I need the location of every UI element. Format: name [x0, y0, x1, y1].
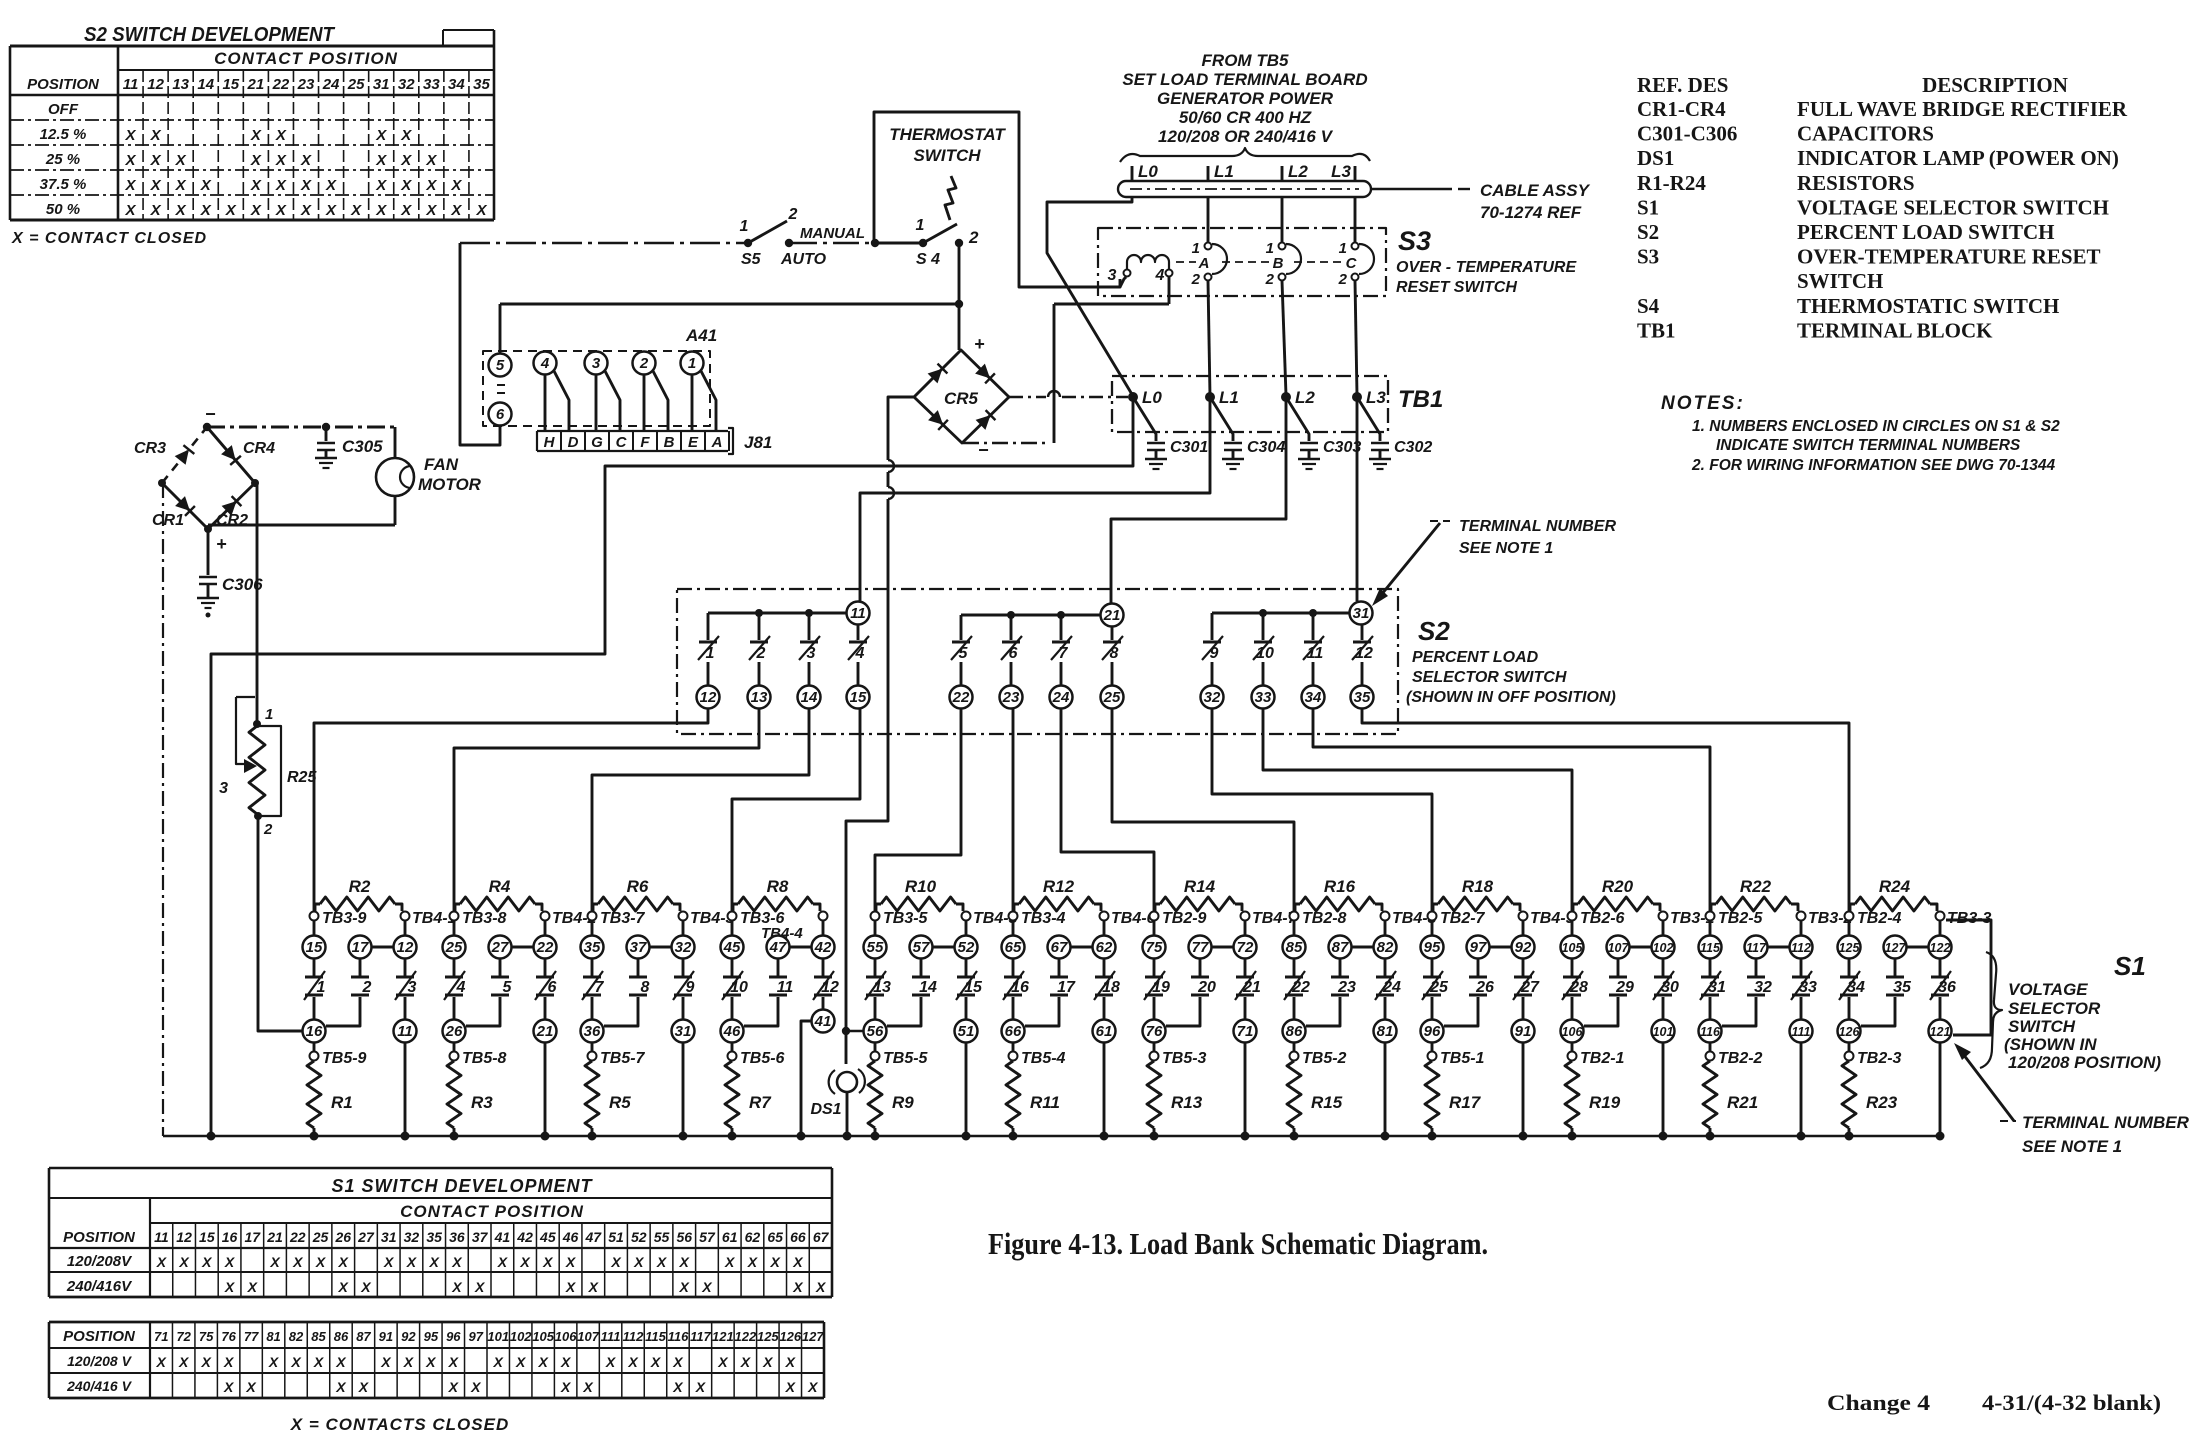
- terminal TB5-9: [310, 1042, 367, 1067]
- svg-text:X: X: [223, 1379, 235, 1395]
- svg-text:3: 3: [219, 780, 228, 797]
- svg-text:X: X: [400, 177, 412, 194]
- svg-text:RESISTORS: RESISTORS: [1797, 171, 1915, 195]
- svg-text:R14: R14: [1184, 877, 1216, 896]
- resistor R15: [1287, 1061, 1343, 1136]
- capacitor C302: [1357, 397, 1432, 469]
- svg-text:23: 23: [297, 76, 315, 93]
- svg-text:X: X: [792, 1279, 804, 1295]
- svg-text:51: 51: [608, 1229, 624, 1245]
- svg-text:X: X: [150, 177, 162, 194]
- svg-text:Figure 4-13. Load Bank Sche: Figure 4-13. Load Bank Schematic Diagram…: [988, 1226, 1488, 1261]
- svg-text:122: 122: [735, 1329, 757, 1344]
- S1 terminal 25: [443, 920, 466, 959]
- S2 contact 9: [1202, 613, 1223, 686]
- svg-text:17: 17: [352, 939, 369, 956]
- svg-text:L1: L1: [1214, 162, 1234, 181]
- switch S2 box: [677, 589, 1398, 734]
- svg-text:76: 76: [1146, 1023, 1163, 1040]
- notes text block: [1661, 393, 2060, 474]
- terminal TB4-8: [1381, 910, 1437, 927]
- svg-text:X: X: [403, 1354, 415, 1370]
- svg-text:72: 72: [176, 1329, 191, 1344]
- S1 terminal 107: [1607, 936, 1653, 959]
- svg-text:X: X: [515, 1354, 527, 1370]
- svg-text:50 %: 50 %: [46, 201, 80, 218]
- svg-text:CR4: CR4: [243, 440, 275, 457]
- svg-text:TERMINAL BLOCK: TERMINAL BLOCK: [1797, 318, 1993, 342]
- svg-text:TB5-3: TB5-3: [1162, 1050, 1207, 1067]
- wire thermostat to S3 coil pin3: [1120, 277, 1126, 287]
- svg-text:X: X: [400, 152, 412, 169]
- svg-text:(SHOWN IN OFF POSITION): (SHOWN IN OFF POSITION): [1406, 689, 1616, 706]
- svg-text:25: 25: [1103, 689, 1121, 706]
- rectifier CR1-CR4: [134, 404, 275, 554]
- svg-text:6: 6: [1009, 645, 1018, 662]
- svg-text:20: 20: [1197, 979, 1216, 996]
- svg-text:47: 47: [585, 1229, 603, 1245]
- svg-text:R3: R3: [471, 1093, 493, 1112]
- svg-text:X: X: [125, 152, 137, 169]
- svg-text:THERMOSTATIC SWITCH: THERMOSTATIC SWITCH: [1797, 294, 2059, 318]
- svg-text:97: 97: [469, 1329, 484, 1344]
- wire bridge to R25: [255, 483, 257, 724]
- svg-text:X: X: [375, 177, 387, 194]
- svg-text:127: 127: [802, 1329, 824, 1344]
- S1 terminal 51: [955, 1020, 978, 1043]
- svg-text:Change 4: Change 4: [1827, 1390, 1930, 1415]
- S1 contact 9: [673, 958, 695, 1020]
- svg-text:VOLTAGE SELECTOR SWITCH: VOLTAGE SELECTOR SWITCH: [1797, 195, 2109, 219]
- svg-text:S5: S5: [741, 251, 762, 268]
- svg-text:X: X: [150, 152, 162, 169]
- S1 contact 15: [956, 958, 983, 1020]
- svg-text:REF. DES: REF. DES: [1637, 73, 1728, 97]
- svg-text:86: 86: [1286, 1023, 1303, 1040]
- S2 contact 7: [1051, 615, 1072, 686]
- wire L3 cable to TB1: [1355, 197, 1357, 395]
- S1 terminal 82: [1374, 920, 1397, 959]
- wire S2 output 708 to group 314: [314, 708, 708, 911]
- terminal TB2-4: [1845, 910, 1902, 927]
- svg-text:57: 57: [699, 1229, 716, 1245]
- resistor R5: [585, 1061, 631, 1136]
- svg-text:126: 126: [1839, 1025, 1861, 1039]
- svg-text:12: 12: [700, 689, 717, 706]
- svg-text:3: 3: [807, 645, 816, 662]
- svg-text:TB2-7: TB2-7: [1440, 910, 1486, 927]
- svg-text:70-1274 REF: 70-1274 REF: [1480, 203, 1582, 222]
- svg-text:SWITCH: SWITCH: [1797, 269, 1883, 293]
- node TB1 L2: [1281, 388, 1315, 407]
- S1 contact 36: [1930, 958, 1956, 1020]
- S2 contact 1: [698, 613, 719, 686]
- svg-text:41: 41: [814, 1013, 832, 1030]
- S1 terminal 47: [767, 936, 813, 959]
- A41 pin 3: [585, 352, 608, 375]
- S1 terminal 56: [864, 1020, 887, 1043]
- node L3 label: [1331, 162, 1355, 181]
- S1 terminal 41: [812, 1010, 835, 1033]
- svg-text:56: 56: [676, 1229, 692, 1245]
- terminal TB4-1: [401, 910, 457, 927]
- capacitor C303: [1286, 397, 1361, 469]
- svg-text:10: 10: [1256, 645, 1274, 662]
- svg-text:R1: R1: [331, 1093, 353, 1112]
- S1 terminal 116: [1699, 1020, 1722, 1043]
- svg-text:X: X: [605, 1354, 617, 1370]
- svg-text:1: 1: [706, 645, 715, 662]
- connector A41 box: [483, 326, 717, 426]
- svg-text:106: 106: [555, 1329, 577, 1344]
- svg-text:X: X: [701, 1279, 713, 1295]
- svg-text:15: 15: [850, 689, 867, 706]
- svg-text:34: 34: [448, 76, 465, 93]
- svg-text:E: E: [688, 434, 699, 451]
- svg-text:X: X: [792, 1254, 804, 1270]
- svg-text:45: 45: [723, 939, 741, 956]
- S1 contact 22: [1284, 958, 1310, 1020]
- svg-text:62: 62: [1096, 939, 1113, 956]
- svg-text:62: 62: [745, 1229, 761, 1245]
- svg-text:X: X: [425, 152, 437, 169]
- svg-text:11: 11: [1307, 645, 1324, 662]
- terminal TB5-4: [1009, 1042, 1066, 1067]
- from TB5 source text: [1120, 51, 1370, 162]
- svg-text:X: X: [627, 1354, 639, 1370]
- capacitor C301: [1133, 397, 1208, 469]
- svg-text:R6: R6: [627, 877, 649, 896]
- svg-text:15: 15: [199, 1229, 215, 1245]
- S1 terminal 31: [672, 1020, 695, 1043]
- svg-text:X: X: [672, 1354, 684, 1370]
- wire L2 cable to TB1: [1282, 197, 1286, 395]
- svg-text:TB2-5: TB2-5: [1718, 910, 1764, 927]
- capacitor C305: [315, 427, 383, 468]
- svg-text:R4: R4: [489, 877, 511, 896]
- svg-text:X: X: [125, 177, 137, 194]
- svg-text:POSITION: POSITION: [63, 1229, 136, 1246]
- svg-text:6: 6: [496, 406, 505, 423]
- S1 contact 23: [1306, 958, 1356, 1026]
- svg-text:31: 31: [1353, 605, 1370, 622]
- svg-text:97: 97: [1470, 939, 1487, 956]
- S1 terminal 11: [394, 1020, 417, 1043]
- svg-text:C301: C301: [1170, 439, 1208, 456]
- svg-text:X: X: [225, 202, 237, 219]
- wire terminal 51 to bus: [965, 1042, 968, 1136]
- svg-text:77: 77: [1192, 939, 1209, 956]
- node TB1 L1: [1205, 388, 1239, 407]
- svg-text:X: X: [250, 127, 262, 144]
- svg-text:3: 3: [592, 355, 601, 372]
- thermostat switch box: [874, 112, 1120, 287]
- A41 pin 5: [489, 354, 512, 377]
- svg-text:28: 28: [1569, 979, 1588, 996]
- svg-text:12.5 %: 12.5 %: [40, 126, 87, 143]
- svg-text:X: X: [450, 177, 462, 194]
- svg-text:X: X: [300, 177, 312, 194]
- svg-text:POSITION: POSITION: [27, 76, 100, 93]
- svg-text:81: 81: [1377, 1023, 1394, 1040]
- resistor R9: [868, 1061, 914, 1136]
- svg-text:X = CONTACTS CLOSED: X = CONTACTS CLOSED: [290, 1415, 509, 1434]
- svg-text:26: 26: [1475, 979, 1494, 996]
- svg-text:95: 95: [424, 1329, 439, 1344]
- terminal TB4-2: [541, 910, 597, 927]
- wire left dc rail (dash-dot): [162, 483, 164, 1136]
- svg-text:X: X: [247, 1279, 259, 1295]
- svg-text:105: 105: [532, 1329, 554, 1344]
- callout terminal number (top): [1372, 518, 1616, 606]
- resistor R13: [1147, 1061, 1203, 1136]
- S2 terminal 21: [1101, 604, 1124, 627]
- svg-text:X: X: [245, 1379, 257, 1395]
- svg-text:A41: A41: [685, 326, 717, 345]
- S2 terminal 24: [1050, 686, 1073, 709]
- node TB1 L0: [1128, 388, 1162, 407]
- S1 terminal 126: [1838, 1020, 1861, 1043]
- terminal TB4-9: [1519, 910, 1575, 927]
- S2 terminal 22: [950, 686, 973, 709]
- svg-text:S1: S1: [2114, 951, 2146, 981]
- svg-text:16: 16: [306, 1023, 323, 1040]
- wire bridge minus rail: [203, 423, 395, 431]
- svg-text:31: 31: [675, 1023, 692, 1040]
- svg-text:34: 34: [1305, 689, 1322, 706]
- svg-text:TB3-7: TB3-7: [600, 910, 646, 927]
- S2 contact 12: [1352, 624, 1373, 686]
- table S1 switch development upper: [49, 1168, 832, 1297]
- S2 contact 5: [951, 615, 972, 686]
- resistor R14: [1155, 877, 1242, 911]
- svg-text:S2: S2: [1637, 220, 1659, 244]
- svg-text:X: X: [588, 1279, 600, 1295]
- S2 terminal 32: [1201, 686, 1224, 709]
- resistor R6: [593, 877, 680, 911]
- svg-text:X: X: [762, 1354, 774, 1370]
- S2 bus wire 31: [1212, 609, 1350, 617]
- svg-text:102: 102: [510, 1329, 532, 1344]
- svg-text:R23: R23: [1866, 1093, 1898, 1112]
- svg-text:33: 33: [1799, 979, 1817, 996]
- svg-text:2: 2: [1265, 271, 1275, 288]
- A41 pin 2: [633, 352, 656, 375]
- svg-text:87: 87: [1332, 939, 1349, 956]
- svg-text:X: X: [338, 1279, 350, 1295]
- S2 terminal 14: [798, 686, 821, 709]
- svg-text:36: 36: [584, 1023, 601, 1040]
- A41 pin 6: [489, 385, 512, 426]
- S1 contact 33: [1791, 958, 1817, 1020]
- S1 contact 11: [744, 958, 793, 1026]
- S1 terminal 127: [1884, 936, 1930, 959]
- S1 contact 21: [1235, 958, 1261, 1020]
- cable assembly: [1118, 181, 1591, 222]
- S2 terminal 33: [1252, 686, 1275, 709]
- svg-text:X: X: [740, 1354, 752, 1370]
- svg-text:31: 31: [381, 1229, 397, 1245]
- svg-text:66: 66: [790, 1229, 806, 1245]
- terminal TB2-7: [1428, 910, 1486, 927]
- svg-text:2. FOR WIRING INFORMATION SEE: 2. FOR WIRING INFORMATION SEE DWG 70-134…: [1691, 457, 2056, 474]
- svg-text:2: 2: [756, 645, 766, 662]
- S1 terminal 62: [1093, 920, 1116, 959]
- S1 terminal 32: [672, 920, 695, 959]
- S1 contact 4: [444, 958, 466, 1020]
- svg-text:41: 41: [494, 1229, 511, 1245]
- svg-text:55: 55: [867, 939, 884, 956]
- svg-text:R22: R22: [1740, 877, 1772, 896]
- S3 pole C: [1338, 240, 1374, 288]
- svg-text:33: 33: [423, 76, 440, 93]
- svg-text:X: X: [175, 177, 187, 194]
- svg-text:X: X: [292, 1254, 304, 1270]
- svg-text:X: X: [497, 1254, 509, 1270]
- wire terminal 101 to bus: [1662, 1042, 1665, 1136]
- svg-text:R7: R7: [749, 1093, 772, 1112]
- svg-text:32: 32: [404, 1229, 420, 1245]
- S1 terminal 91: [1512, 1020, 1535, 1043]
- svg-text:X: X: [200, 177, 212, 194]
- svg-text:S2 SWITCH DEVELOPMENT: S2 SWITCH DEVELOPMENT: [84, 24, 336, 46]
- svg-text:111: 111: [1791, 1025, 1810, 1039]
- S1 contact 17: [1025, 958, 1076, 1026]
- svg-text:72: 72: [1237, 939, 1254, 956]
- svg-text:TB5-6: TB5-6: [740, 1050, 785, 1067]
- terminal TB4-3: [679, 910, 735, 927]
- svg-text:B: B: [664, 434, 675, 451]
- wire CR5 right to TB1 L0 (dash-dot with hop): [1009, 391, 1128, 397]
- svg-text:TERMINAL NUMBER: TERMINAL NUMBER: [2022, 1113, 2190, 1132]
- svg-text:X: X: [724, 1254, 736, 1270]
- svg-text:X: X: [815, 1279, 827, 1295]
- svg-text:L3: L3: [1366, 388, 1386, 407]
- svg-text:X: X: [785, 1379, 797, 1395]
- svg-text:85: 85: [311, 1329, 326, 1344]
- wire S2 output 1313 to group 1710: [1313, 708, 1710, 911]
- svg-text:DS1: DS1: [1637, 146, 1674, 170]
- S1 terminal 81: [1374, 1020, 1397, 1043]
- wire L0 neutral to left bus: [211, 397, 1133, 1136]
- S1 contact 10: [722, 958, 748, 1020]
- svg-text:12: 12: [176, 1229, 192, 1245]
- terminal TB4-7: [1241, 910, 1298, 927]
- terminal block TB1 box: [1112, 376, 1443, 432]
- svg-text:125: 125: [1839, 941, 1861, 955]
- svg-text:46: 46: [723, 1023, 741, 1040]
- wire S3 coil pin4 to CR5 minus: [963, 277, 1169, 443]
- svg-text:16: 16: [1011, 979, 1029, 996]
- svg-text:61: 61: [722, 1229, 738, 1245]
- svg-text:X: X: [150, 127, 162, 144]
- svg-text:81: 81: [266, 1329, 280, 1344]
- svg-text:X: X: [250, 177, 262, 194]
- S1 contact 13: [865, 958, 891, 1020]
- S1 contact 34: [1839, 958, 1865, 1020]
- svg-text:INDICATE SWITCH TERMINAL NUMBE: INDICATE SWITCH TERMINAL NUMBERS: [1716, 437, 2021, 454]
- svg-text:42: 42: [814, 939, 832, 956]
- svg-text:TB4-6: TB4-6: [1111, 910, 1156, 927]
- S1 terminal 52: [955, 920, 978, 959]
- svg-text:C305: C305: [342, 437, 383, 456]
- svg-text:X: X: [428, 1254, 440, 1270]
- switch S3 box: [1098, 226, 1577, 296]
- lamp DS1: [810, 1027, 864, 1136]
- svg-text:120/208 OR 240/416 V: 120/208 OR 240/416 V: [1158, 127, 1334, 146]
- svg-text:13: 13: [751, 689, 768, 706]
- svg-text:31: 31: [1708, 979, 1726, 996]
- svg-text:7: 7: [595, 979, 605, 996]
- svg-text:SEE NOTE 1: SEE NOTE 1: [2022, 1137, 2122, 1156]
- svg-text:TB2-6: TB2-6: [1580, 910, 1625, 927]
- svg-text:R10: R10: [905, 877, 937, 896]
- S1 terminal 122: [1929, 920, 1952, 959]
- svg-text:S 4: S 4: [916, 251, 940, 268]
- S2 bus wire 11: [708, 609, 847, 617]
- svg-text:111: 111: [601, 1329, 621, 1344]
- svg-text:8: 8: [1110, 645, 1119, 662]
- S1 contact 24: [1375, 958, 1401, 1020]
- svg-text:24: 24: [322, 76, 340, 93]
- svg-text:14: 14: [801, 689, 818, 706]
- S2 contact 8: [1102, 626, 1123, 686]
- svg-text:21: 21: [536, 1023, 554, 1040]
- S1 terminal 102: [1652, 920, 1675, 959]
- svg-text:9: 9: [686, 979, 695, 996]
- svg-text:37.5 %: 37.5 %: [40, 176, 87, 193]
- wire L1 cable to TB1: [1208, 197, 1210, 396]
- svg-text:TB2-1: TB2-1: [1580, 1050, 1625, 1067]
- node L2 label: [1282, 162, 1308, 181]
- svg-text:52: 52: [631, 1229, 647, 1245]
- svg-text:−: −: [978, 440, 989, 460]
- svg-text:X: X: [375, 202, 387, 219]
- svg-text:11: 11: [154, 1229, 169, 1245]
- svg-text:14: 14: [919, 979, 937, 996]
- terminal TB2-3: [1845, 1042, 1902, 1067]
- svg-text:A: A: [711, 434, 723, 451]
- table reference designator list: [1637, 73, 2128, 342]
- svg-text:X: X: [582, 1379, 594, 1395]
- S1 terminal 121: [1929, 1020, 1952, 1043]
- svg-text:117: 117: [1746, 941, 1767, 955]
- S2 terminal 12: [697, 686, 720, 709]
- table S1 switch development lower: [49, 1322, 824, 1434]
- S1 contact 8: [604, 958, 650, 1026]
- svg-text:TERMINAL NUMBER: TERMINAL NUMBER: [1459, 518, 1616, 535]
- resistor R17: [1425, 1061, 1482, 1136]
- svg-text:L2: L2: [1295, 388, 1315, 407]
- wires A41 pins to J81: [545, 371, 716, 431]
- svg-text:TB2-9: TB2-9: [1162, 910, 1207, 927]
- svg-text:C: C: [616, 434, 628, 451]
- svg-text:92: 92: [1515, 939, 1532, 956]
- svg-text:57: 57: [913, 939, 930, 956]
- terminal TB3-1: [1659, 910, 1715, 927]
- svg-text:X: X: [650, 1354, 662, 1370]
- S1 terminal 96: [1421, 1020, 1444, 1043]
- svg-text:34: 34: [1847, 979, 1865, 996]
- resistor R19: [1565, 1061, 1621, 1136]
- S2 terminal 34: [1302, 686, 1325, 709]
- S2 contact 2: [749, 613, 770, 686]
- bus bottom neutral: [163, 1132, 1945, 1141]
- svg-text:10: 10: [730, 979, 748, 996]
- S1 terminal 92: [1512, 920, 1535, 959]
- svg-text:35: 35: [584, 939, 601, 956]
- svg-text:S4: S4: [1637, 294, 1660, 318]
